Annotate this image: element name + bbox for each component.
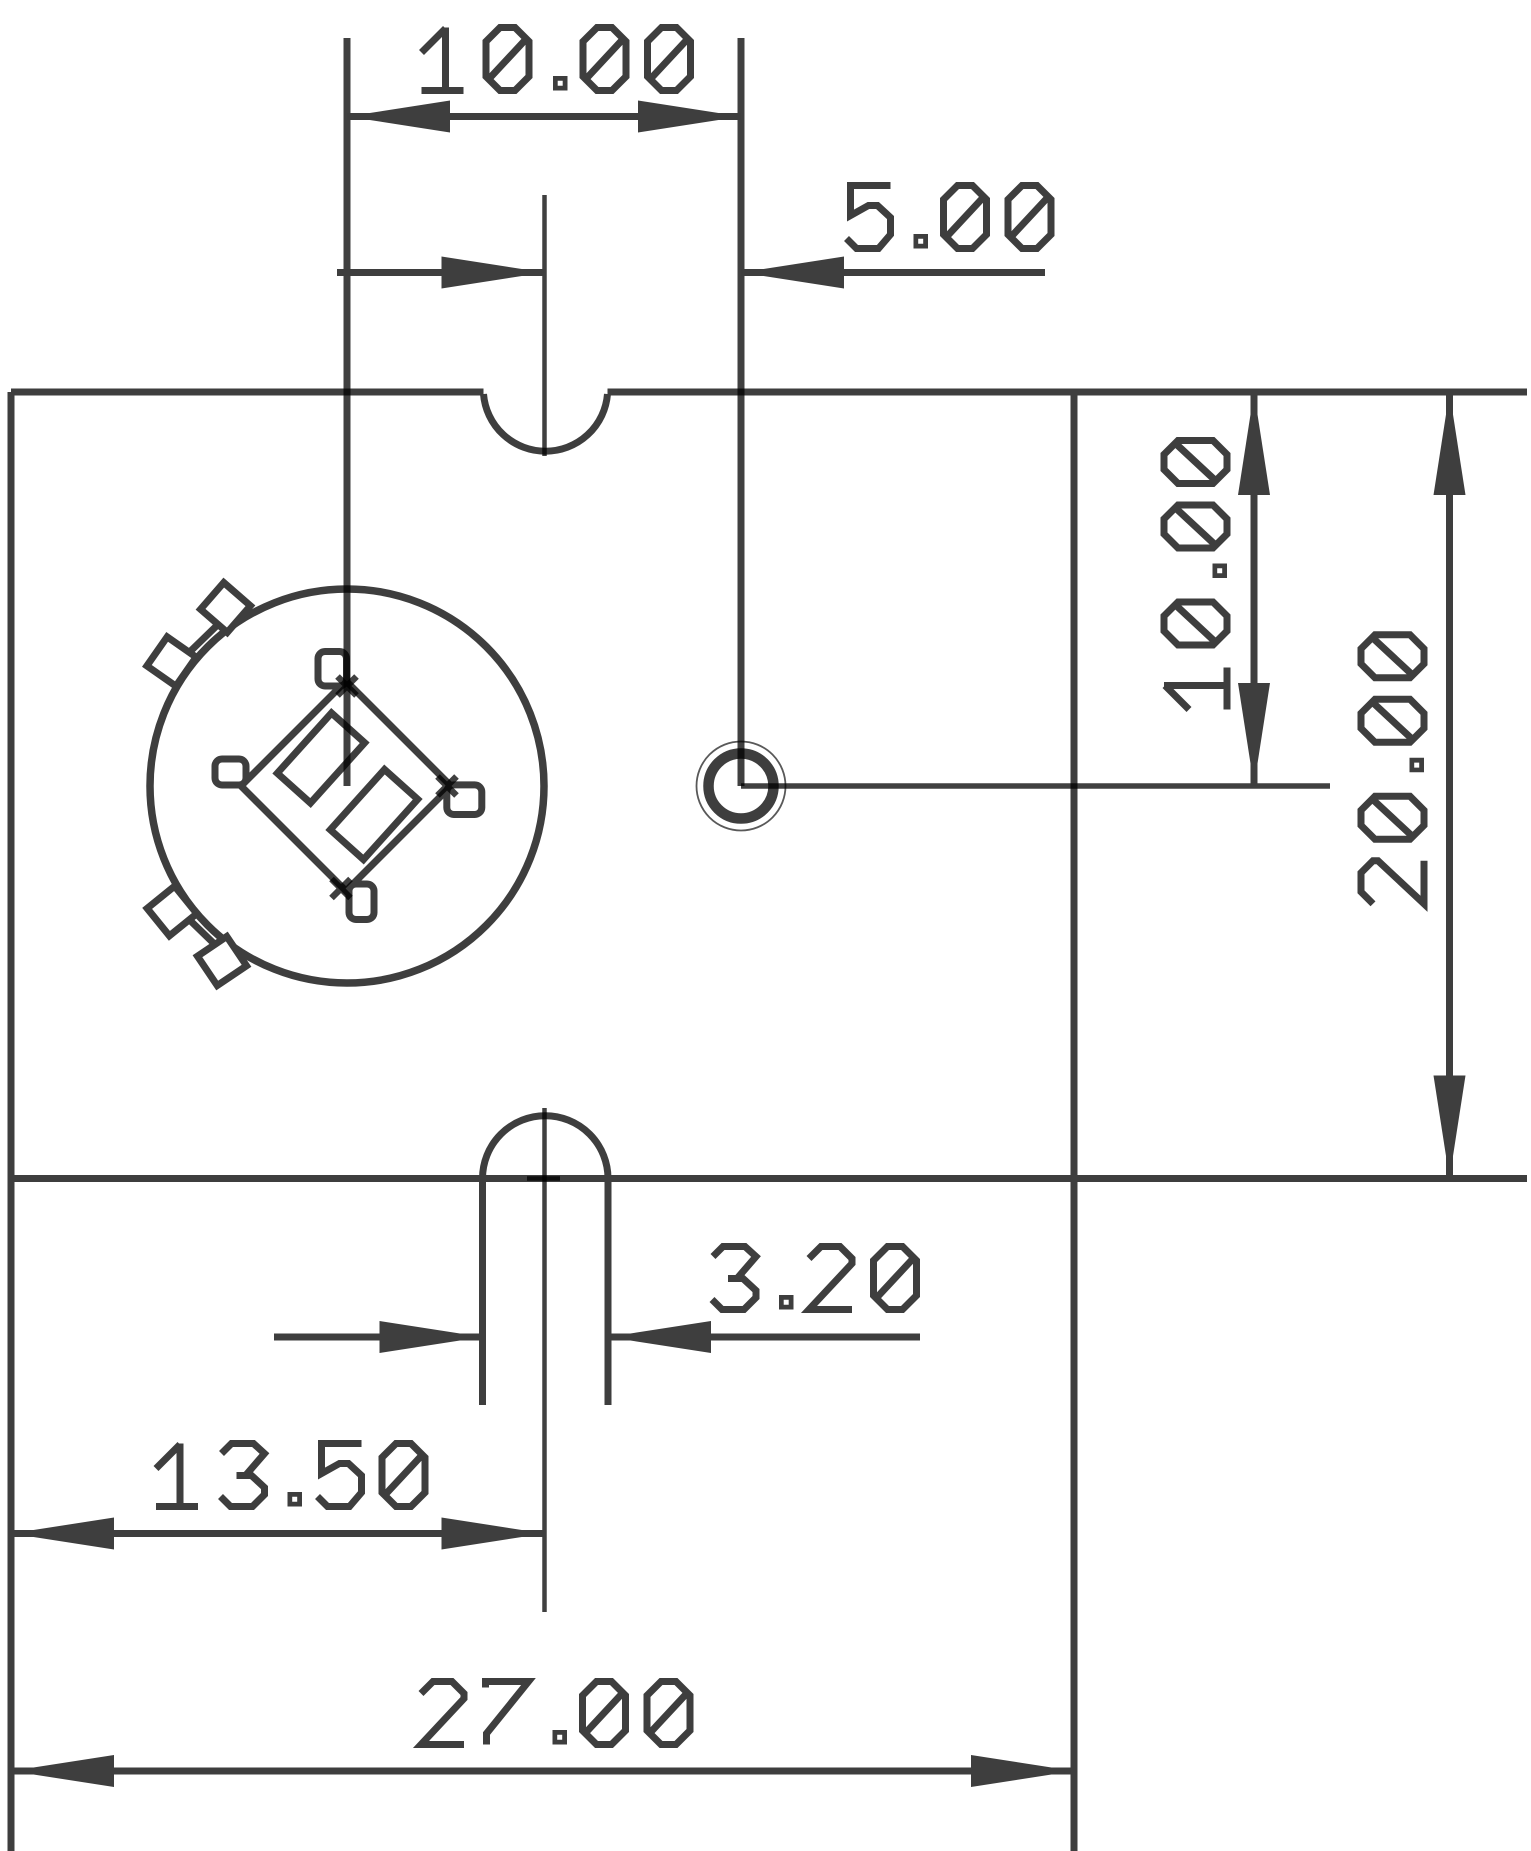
dimension 27.00: line	[11, 1768, 1074, 1775]
dimension 10.00 top: line	[347, 113, 741, 120]
dimension 10.00 right: line	[1251, 392, 1258, 786]
boss square lower-left inner	[193, 932, 252, 991]
boss square upper-left inner	[199, 581, 252, 634]
pad pin right	[447, 785, 482, 815]
hole drill ring	[709, 754, 774, 819]
pad pin top	[318, 652, 347, 687]
dimension 5.00: left segment	[337, 269, 545, 276]
dimension 3.20: right arrow	[608, 1321, 711, 1353]
dimension 27.00: left arrow	[11, 1755, 114, 1787]
extension line hole horizontal y=786	[741, 783, 1330, 789]
slot: top arc	[483, 1116, 609, 1179]
boss square lower-left outer	[145, 884, 200, 939]
slot: right side	[605, 1179, 612, 1406]
slot center tick	[527, 1176, 560, 1181]
part outline: right edge / 27.00 extension	[1071, 392, 1078, 1851]
dimension 20.00: top arrow	[1434, 392, 1466, 495]
dimension 10.00 top: left arrow	[347, 101, 450, 133]
part outline: top edge with notch	[11, 392, 1527, 451]
trimmer body: rim bar lower-left	[185, 916, 218, 948]
dimension 10.00 top: right arrow	[638, 101, 741, 133]
rotor slot rectangle lower	[330, 770, 417, 860]
extension line pot centerline x=346	[344, 38, 351, 786]
pin mark bottom	[332, 879, 351, 898]
boss square upper-left outer	[143, 633, 201, 691]
pin mark right	[438, 777, 457, 796]
dimension 10.00 right: text (rotated)	[1164, 441, 1227, 710]
extension line slot centerline	[542, 1108, 547, 1612]
dimension 13.50: right arrow	[442, 1518, 545, 1550]
dimension 10.00 right: bottom arrow	[1238, 683, 1270, 786]
dimension 3.20: left arrow	[380, 1321, 483, 1353]
dimension 5.00: right arrow	[741, 257, 844, 289]
part outline: left edge / 27.00 extension	[8, 392, 15, 1851]
rotor slot rectangle upper	[277, 713, 364, 803]
dimension 20.00: text (rotated)	[1361, 635, 1424, 904]
dimension 13.50: text	[156, 1444, 425, 1507]
extension line hole centerline x=741	[738, 38, 745, 786]
dimension 5.00: left arrow	[442, 257, 545, 289]
dimension 13.50: line	[11, 1530, 545, 1537]
pin mark top	[338, 677, 357, 696]
slot: left side	[479, 1179, 486, 1406]
extension line notch centerline x=542	[542, 195, 547, 456]
dimension 3.20: right segment	[608, 1334, 920, 1341]
trimmer body circle	[150, 589, 544, 983]
pad pin left	[215, 759, 246, 785]
dimension 5.00: right segment	[741, 269, 1045, 276]
dimension 27.00: text	[421, 1682, 690, 1745]
dimension 20.00: bottom arrow	[1434, 1076, 1466, 1179]
dimension 20.00: line	[1446, 392, 1453, 1179]
part outline: bottom bend line / 20.00 extension	[11, 1175, 1527, 1182]
pad pin bottom	[349, 884, 374, 920]
trimmer body: rim bar upper-left	[185, 624, 219, 657]
dimension 5.00: text	[847, 186, 1052, 249]
dimension 13.50: left arrow	[11, 1518, 114, 1550]
hole pad circle	[697, 742, 786, 831]
dimension 3.20: left segment	[274, 1334, 483, 1341]
dimension 10.00 top: text	[422, 28, 691, 91]
dimension 10.00 right: top arrow	[1238, 392, 1270, 495]
dimension 3.20: text	[712, 1247, 917, 1310]
dimension 27.00: right arrow	[971, 1755, 1074, 1787]
trimmer rotor diamond	[241, 681, 451, 891]
